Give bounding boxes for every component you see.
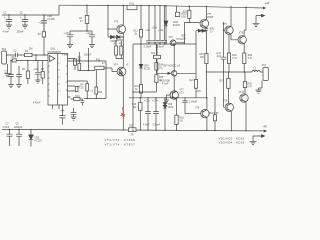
- wire VT6 emitter row: [177, 72, 196, 74]
- wire input row1: [6, 54, 48, 56]
- svg-text:R18: R18: [199, 54, 204, 56]
- transistor Q8 VT5: [225, 26, 233, 34]
- capacitor C16: [182, 98, 187, 114]
- transistor Q7b VT7: [201, 109, 209, 117]
- resistor R11: [104, 68, 117, 72]
- resistor R10: [71, 98, 83, 100]
- svg-text:KC157: KC157: [35, 140, 43, 143]
- wire VT3 collector: [122, 6, 124, 26]
- capacitor C6: [89, 31, 95, 45]
- svg-text:R17: R17: [182, 36, 187, 38]
- wire input row2: [11, 60, 48, 62]
- transistor Q6 VT6a: [170, 40, 176, 46]
- wire VT3 base: [108, 28, 117, 30]
- ground XS2: [256, 81, 263, 94]
- svg-text:470mF: 470mF: [33, 101, 41, 104]
- svg-text:VT2/VT4 - KT837: VT2/VT4 - KT837: [105, 143, 136, 147]
- component VD12: [175, 6, 179, 17]
- ground: [6, 25, 12, 28]
- svg-text:R25: R25: [129, 125, 134, 128]
- svg-text:0 47: 0 47: [232, 58, 237, 60]
- transistor Q6b VT6: [172, 71, 177, 76]
- capacitor C1: [6, 15, 12, 25]
- capacitor bank drops: [149, 6, 164, 41]
- svg-text:2 2kmF: 2 2kmF: [189, 100, 198, 103]
- capacitor C4a: [60, 116, 66, 125]
- diode VD9: [163, 98, 167, 106]
- transistor Q4 VT4: [117, 67, 126, 76]
- svg-text:KT8: KT8: [239, 33, 244, 35]
- svg-text:R10: R10: [76, 96, 81, 98]
- resistor R5: [78, 52, 80, 63]
- svg-text:220kmF: 220kmF: [156, 46, 165, 49]
- ground: [16, 85, 22, 88]
- wire trim arrow: [157, 59, 171, 75]
- svg-text:VD8: VD8: [144, 65, 149, 67]
- resistor R6a: [42, 61, 44, 85]
- svg-text:VD12: VD12: [181, 14, 187, 16]
- diode VD7: [114, 35, 123, 38]
- wire top-left rail: [2, 5, 59, 15]
- resistor R18: [205, 43, 207, 54]
- svg-text:VT3: VT3: [114, 22, 119, 24]
- transistor Q8b VT8: [225, 103, 233, 111]
- capacitor C13: [145, 98, 151, 130]
- svg-text:+C: +C: [126, 65, 129, 67]
- capacitor C17: [221, 57, 227, 59]
- resistor R29: [243, 72, 246, 82]
- resistor R14: [155, 44, 157, 63]
- wire VT7b base: [185, 113, 201, 115]
- ground: [35, 80, 40, 83]
- svg-text:R15: R15: [159, 77, 164, 79]
- wire interstage: [116, 40, 123, 59]
- wire VT8 links: [229, 103, 231, 131]
- svg-text:+C4: +C4: [60, 111, 65, 113]
- svg-text:VD11: VD11: [173, 22, 179, 24]
- capacitor C15: [205, 27, 209, 43]
- capacitor C1in: [16, 53, 18, 57]
- connector XS2: [263, 68, 268, 81]
- resistor R8: [75, 86, 78, 91]
- svg-text:R13: R13: [135, 86, 140, 88]
- svg-text:+ C5: + C5: [64, 32, 70, 35]
- transistor Q9 VT9: [238, 36, 246, 44]
- wire trim row: [133, 91, 155, 93]
- wire VT3 emitter to VT4: [122, 33, 124, 67]
- svg-text:R11: R11: [96, 59, 101, 62]
- resistor R17: [188, 6, 190, 22]
- svg-text:VT9: VT9: [195, 108, 200, 110]
- svg-text:VT10: VT10: [239, 92, 245, 94]
- svg-text:4 5mF: 4 5mF: [62, 55, 69, 57]
- transistor Q3 VT3: [117, 25, 126, 34]
- resistor R13: [139, 85, 142, 94]
- node arrow gnd top right: [256, 14, 265, 23]
- svg-text:4 7mF: 4 7mF: [162, 83, 169, 85]
- transistor Q10 VT10: [240, 94, 248, 102]
- wire VT10 emitter: [245, 102, 247, 131]
- node arrow -48: [264, 129, 267, 132]
- svg-text:R24: R24: [98, 92, 103, 94]
- resistor R6b: [115, 40, 117, 59]
- svg-text:VT4: VT4: [114, 65, 119, 67]
- wire predriver column: [224, 22, 226, 107]
- resistor R24: [95, 70, 97, 99]
- resistor R28: [243, 44, 245, 53]
- transistor Q5 VT7: [200, 19, 209, 28]
- diode VD14: [201, 29, 206, 32]
- svg-text:2M: 2M: [29, 48, 32, 51]
- diode VD2: [29, 130, 34, 147]
- diode VD13: [196, 29, 201, 32]
- wire VT5 base: [224, 29, 225, 31]
- svg-text:+ C6: + C6: [86, 32, 92, 35]
- ground: [253, 23, 260, 26]
- svg-text:220kmF: 220kmF: [14, 126, 23, 129]
- svg-text:R10: R10: [151, 53, 156, 55]
- svg-text:KC156: KC156: [173, 25, 181, 27]
- ground: [22, 25, 28, 28]
- svg-text:R20: R20: [210, 29, 215, 31]
- wire VT5 emitter to VT9 base: [231, 34, 238, 40]
- wire VT7b links: [206, 98, 208, 131]
- svg-text:VD9: VD9: [168, 104, 173, 106]
- capacitor C11: [157, 40, 163, 44]
- capacitor C3: [35, 61, 40, 81]
- wire driver column: [107, 5, 109, 37]
- wire output node: [206, 71, 252, 73]
- wire VT6 links: [173, 44, 175, 92]
- svg-text:KT805: KT805: [207, 17, 214, 19]
- resistor R26: [228, 35, 230, 53]
- capacitor C7: [7, 129, 13, 146]
- wire junction drop: [35, 55, 37, 61]
- wire top +supply rail: [59, 5, 264, 8]
- ground: [164, 95, 170, 103]
- svg-text:VT5: VT5: [223, 24, 228, 26]
- capacitor C10: [152, 40, 158, 44]
- ground: [250, 141, 257, 144]
- svg-text:VT1/VT3 - KT805: VT1/VT3 - KT805: [105, 138, 136, 142]
- resistor R1: [25, 53, 33, 56]
- wire bias to input: [43, 37, 45, 55]
- wire VT6a right: [176, 42, 185, 44]
- svg-text:+C13: +C13: [144, 101, 150, 103]
- diode VD6: [108, 35, 114, 38]
- wire mid bus: [133, 43, 196, 45]
- resistor R3: [86, 5, 88, 31]
- wire bottom -supply rail: [2, 129, 265, 131]
- svg-text:4 5mF: 4 5mF: [3, 32, 10, 34]
- svg-text:XS1: XS1: [2, 48, 7, 51]
- op-amp U1 DA1: [48, 54, 68, 106]
- inductor L1: [252, 70, 263, 72]
- resistor R6: [68, 58, 76, 61]
- svg-text:KC55: KC55: [144, 68, 150, 70]
- svg-text:VD10: VD10: [168, 107, 174, 109]
- capacitor C2b: [16, 66, 22, 85]
- svg-text:+C10: +C10: [152, 28, 158, 30]
- svg-text:4 5mF: 4 5mF: [3, 126, 10, 129]
- svg-text:2 2kmF: 2 2kmF: [153, 125, 161, 127]
- svg-text:KC156: KC156: [47, 18, 55, 21]
- diode VD10: [163, 105, 167, 130]
- resistor R10: [156, 44, 158, 55]
- svg-text:2 2kmF: 2 2kmF: [144, 46, 153, 49]
- svg-text:0 47: 0 47: [248, 87, 253, 89]
- svg-text:VT8: VT8: [223, 100, 228, 102]
- ground: [71, 117, 77, 120]
- ground XS1: [5, 64, 11, 77]
- capacitor C2a: [8, 61, 14, 85]
- capacitor C12: [162, 40, 168, 44]
- svg-text:R27: R27: [220, 81, 225, 83]
- ground: [8, 85, 14, 88]
- ground: [67, 45, 73, 48]
- svg-text:0 47: 0 47: [248, 58, 253, 60]
- capacitor C8: [16, 130, 22, 147]
- resistor R21: [194, 80, 197, 89]
- svg-text:0 56: 0 56: [214, 113, 219, 115]
- svg-text:VD7-VD10 C mF: VD7-VD10 C mF: [163, 66, 181, 68]
- svg-text:KD5: KD5: [182, 17, 187, 19]
- note diode types red: [219, 137, 245, 145]
- capacitor C5b: [81, 99, 85, 106]
- svg-text:KT3: KT3: [180, 93, 185, 95]
- svg-text:+C17: +C17: [216, 53, 222, 55]
- capacitor C4b: [71, 108, 77, 117]
- resistor R27: [227, 72, 230, 78]
- svg-text:+C11: +C11: [158, 30, 164, 32]
- ground: [89, 45, 95, 48]
- svg-text:250mF: 250mF: [17, 32, 25, 34]
- svg-text:VT7: VT7: [180, 90, 185, 92]
- svg-text:+C: +C: [38, 21, 41, 24]
- capacitor C3t: [41, 15, 47, 32]
- svg-text:+C3: +C3: [34, 69, 39, 71]
- resistor R4: [27, 61, 29, 85]
- wire IC right stubs: [68, 81, 88, 97]
- resistor R15: [155, 70, 157, 75]
- zener VD11: [164, 6, 168, 44]
- svg-text:2R: 2R: [131, 134, 134, 137]
- svg-text:R26: R26: [232, 55, 237, 57]
- wire bias column: [195, 31, 197, 98]
- wire VT4 emitter: [122, 76, 124, 131]
- svg-text:4 kmF: 4 kmF: [143, 125, 150, 127]
- svg-text:+C9: +C9: [146, 30, 151, 32]
- svg-text:XS2: XS2: [262, 64, 267, 67]
- svg-text:-48: -48: [263, 124, 267, 128]
- wire mid vertical: [105, 61, 107, 98]
- svg-text:VT7: VT7: [207, 14, 212, 16]
- svg-text:KD521: KD521: [111, 41, 119, 43]
- wire IC bottom pins: [53, 105, 63, 116]
- resistor R16: [139, 98, 141, 103]
- node arrow +48: [263, 7, 266, 10]
- wire cap bus: [70, 30, 92, 32]
- fuse FU1: [127, 5, 137, 9]
- svg-text:R12: R12: [134, 31, 139, 33]
- resistor R25: [129, 128, 137, 132]
- resistor R12: [140, 6, 142, 44]
- svg-text:R29: R29: [248, 84, 253, 86]
- wire VT9 collector: [244, 7, 246, 36]
- diode VD8: [139, 44, 143, 85]
- svg-text:250mF: 250mF: [84, 55, 92, 57]
- svg-text:KTA4528UH: KTA4528UH: [48, 51, 62, 54]
- resistor R22: [214, 98, 216, 115]
- wire lower mid row: [129, 97, 207, 99]
- connector XS1: [2, 51, 7, 64]
- node arrow gnd bottom right: [253, 135, 265, 142]
- svg-text:VD5-VD8: VD5-VD8: [160, 81, 170, 83]
- wire mid bottom row: [84, 97, 106, 99]
- transistor Q7a VT7a: [170, 91, 178, 99]
- svg-text:R16: R16: [132, 104, 137, 106]
- svg-text:R17: R17: [183, 11, 188, 13]
- svg-text:4mF: 4mF: [217, 56, 222, 58]
- resistor R9: [86, 81, 88, 98]
- wire R5 row: [79, 48, 94, 71]
- capacitor C2: [22, 15, 28, 25]
- resistor R2: [12, 59, 16, 62]
- wire driver base row: [184, 22, 199, 43]
- capacitor C14: [153, 98, 159, 130]
- note transistor types: [105, 138, 136, 146]
- svg-text:R19: R19: [180, 118, 185, 120]
- red annotation mark: [121, 108, 125, 118]
- capacitor C5: [67, 31, 73, 45]
- wire VT5 collector: [230, 7, 232, 26]
- svg-text:VT6: VT6: [169, 37, 174, 39]
- svg-text:FU1: FU1: [130, 2, 135, 5]
- svg-text:VD3/VD4 - KD18: VD3/VD4 - KD18: [219, 141, 245, 145]
- resistor R7b: [120, 41, 122, 59]
- svg-text:R21: R21: [190, 80, 195, 82]
- capacitor C9: [146, 40, 152, 44]
- svg-text:+48: +48: [265, 1, 270, 5]
- resistor R19: [176, 98, 178, 115]
- wire left long vertical: [132, 44, 134, 130]
- wire VT7 collector: [205, 6, 207, 19]
- svg-text:+C14: +C14: [152, 101, 158, 103]
- resistor R2t: [42, 32, 45, 37]
- wire IC output row: [68, 60, 107, 62]
- svg-text:R28: R28: [248, 55, 253, 57]
